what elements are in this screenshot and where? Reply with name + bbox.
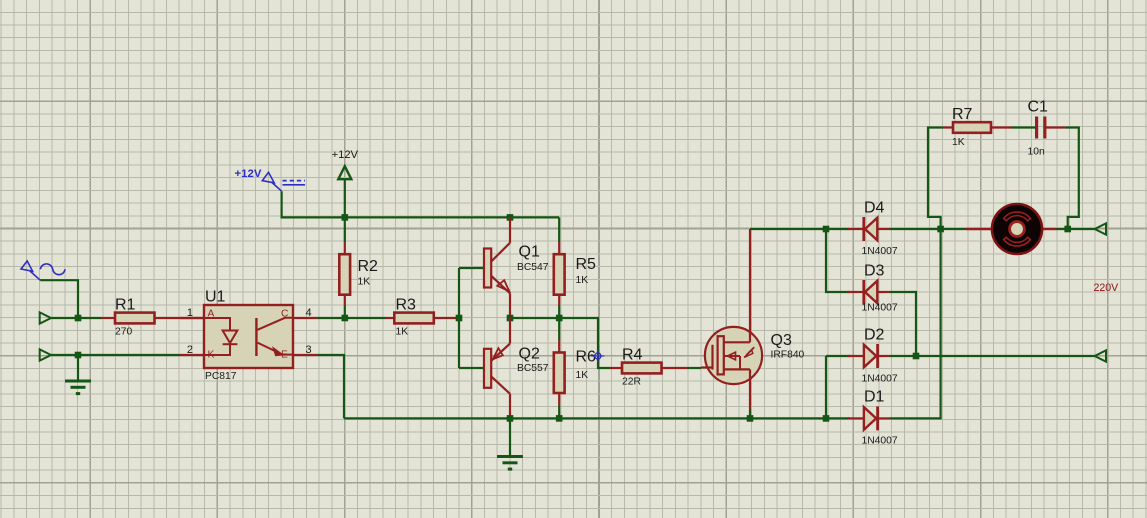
ground GND2 xyxy=(509,418,511,456)
wire node to R4 xyxy=(559,318,610,368)
resistor R3 xyxy=(386,317,394,319)
capacitor C1 xyxy=(1035,117,1038,139)
junction R5 R6 xyxy=(556,315,563,322)
svg-text:BC547: BC547 xyxy=(517,262,549,273)
svg-text:D1: D1 xyxy=(864,389,885,406)
svg-text:K: K xyxy=(208,350,215,361)
wire to Q1 base xyxy=(459,267,484,269)
wire R6 top xyxy=(558,318,560,340)
transistor Q3 MOSFET xyxy=(705,327,762,384)
wire D2 left xyxy=(826,355,851,357)
svg-text:1K: 1K xyxy=(576,275,589,286)
U1 pin stub 1 xyxy=(180,317,204,319)
svg-text:A: A xyxy=(208,309,215,320)
junction motor rail left xyxy=(823,226,830,233)
junction node R2/R3 xyxy=(342,315,349,322)
resistor R7 xyxy=(943,126,953,128)
wire D3 to D2 rail xyxy=(890,292,916,356)
resistor R6 xyxy=(558,340,560,353)
opto-isolator U1 body xyxy=(204,305,293,368)
svg-text:1N4007: 1N4007 xyxy=(862,303,898,314)
transistor Q1 xyxy=(484,249,491,288)
svg-text:220V: 220V xyxy=(1094,282,1120,294)
wire snubber left xyxy=(928,128,943,230)
svg-text:3: 3 xyxy=(306,344,312,356)
wire probe to node xyxy=(40,280,78,318)
resistor R2 xyxy=(344,242,346,254)
resistor R4 xyxy=(610,367,622,369)
junction bus Q1 collector xyxy=(507,214,514,221)
wire D4 right xyxy=(890,228,941,230)
origin marker (blue) xyxy=(595,353,601,359)
svg-text:1K: 1K xyxy=(396,327,409,338)
wire probe down to bus xyxy=(282,191,560,217)
terminal input 1 xyxy=(40,312,51,323)
wire snubber right xyxy=(1066,128,1079,230)
wire bridge left lower xyxy=(825,356,827,418)
wire bottom rail xyxy=(344,417,850,419)
U1 internal LED xyxy=(204,318,230,331)
U1 pin stub 2 xyxy=(180,354,204,356)
svg-text:U1: U1 xyxy=(205,289,226,306)
svg-text:D3: D3 xyxy=(864,263,885,280)
wire output rail xyxy=(890,355,1095,357)
wire U1 pin4 to R3 xyxy=(318,317,386,319)
wire terminal1 xyxy=(51,317,102,319)
voltage probe +12V (blue) xyxy=(262,172,274,183)
wire motor right xyxy=(1057,228,1095,230)
svg-text:R2: R2 xyxy=(358,258,379,275)
wire R2 bottom xyxy=(344,306,346,318)
svg-text:22R: 22R xyxy=(622,377,641,388)
svg-text:10n: 10n xyxy=(1028,147,1045,158)
svg-text:1K: 1K xyxy=(952,137,965,148)
junction rail Q3 xyxy=(747,415,754,422)
svg-text:Q3: Q3 xyxy=(771,332,792,349)
svg-text:R5: R5 xyxy=(576,256,597,273)
resistor R1 xyxy=(102,317,116,319)
wire to Q2 base xyxy=(459,367,484,369)
junction rail D-left xyxy=(823,415,830,422)
junction D3 D2 xyxy=(913,353,920,360)
svg-text:R3: R3 xyxy=(396,297,417,314)
svg-text:R1: R1 xyxy=(115,297,136,314)
junction node IN1 xyxy=(75,315,82,322)
U1 pin stub 3 xyxy=(293,354,318,356)
U1 phototransistor xyxy=(255,318,257,356)
wire R6 bottom xyxy=(558,406,560,418)
svg-text:Q2: Q2 xyxy=(519,346,540,363)
svg-text:R6: R6 xyxy=(576,349,597,366)
wire R2 top xyxy=(344,217,346,242)
svg-text:+12V: +12V xyxy=(235,168,262,180)
svg-text:270: 270 xyxy=(115,327,132,338)
wire terminal2 to U1 K xyxy=(51,354,180,356)
svg-text:1K: 1K xyxy=(576,370,589,381)
terminal output 2 xyxy=(1095,350,1106,361)
wire R5 top xyxy=(558,217,560,242)
motor pins xyxy=(966,228,992,230)
junction rail Q2 xyxy=(507,415,514,422)
svg-text:1N4007: 1N4007 xyxy=(862,436,898,447)
svg-text:1N4007: 1N4007 xyxy=(862,246,898,257)
motor M1 xyxy=(992,204,1042,254)
generator probe (blue) xyxy=(21,261,33,271)
svg-text:4: 4 xyxy=(306,307,312,319)
wire R4 to gate xyxy=(688,367,701,369)
svg-text:R4: R4 xyxy=(622,347,643,364)
wire source to rail xyxy=(749,410,751,418)
Q3 drain wire xyxy=(749,229,751,342)
junction rail R6 xyxy=(556,415,563,422)
wire R7 to C1 xyxy=(1011,126,1035,128)
wire emitters to R5R6 xyxy=(510,317,559,319)
diode D3 xyxy=(848,291,863,293)
svg-text:IRF840: IRF840 xyxy=(771,349,805,360)
svg-text:D4: D4 xyxy=(864,200,885,217)
terminal input 2 xyxy=(40,349,51,360)
wire bridge right vertical xyxy=(890,229,941,418)
junction node IN2 xyxy=(75,352,82,359)
wire motor left xyxy=(941,228,966,230)
wire base column xyxy=(458,268,460,368)
svg-text:2: 2 xyxy=(187,344,193,356)
diode D1 xyxy=(848,417,864,419)
svg-text:C: C xyxy=(281,309,288,320)
ground GND1 xyxy=(77,355,79,381)
svg-text:1: 1 xyxy=(187,307,193,319)
junction snubber xyxy=(937,226,944,233)
wire R5 bottom xyxy=(558,306,560,318)
terminal output 1 xyxy=(1095,223,1106,234)
svg-text:BC557: BC557 xyxy=(517,363,549,374)
junction emitters xyxy=(507,315,514,322)
resistor R5 xyxy=(558,242,560,254)
svg-text:C1: C1 xyxy=(1028,99,1049,116)
svg-text:1K: 1K xyxy=(358,277,371,288)
junction bus R2 xyxy=(342,214,349,221)
junction motor right xyxy=(1064,226,1071,233)
svg-text:Q1: Q1 xyxy=(519,244,540,261)
Q3 source wire xyxy=(749,369,751,410)
svg-text:PC817: PC817 xyxy=(205,371,237,382)
diode D4 xyxy=(848,228,863,230)
svg-text:1N4007: 1N4007 xyxy=(862,374,898,385)
power +12V symbol xyxy=(338,166,351,179)
svg-text:+12V: +12V xyxy=(332,149,359,161)
U1 pin stub 4 xyxy=(293,317,318,319)
transistor Q2 xyxy=(484,349,491,388)
wire drain rail xyxy=(750,228,850,230)
svg-text:E: E xyxy=(281,350,288,361)
junction node base xyxy=(456,315,463,322)
diode D2 xyxy=(848,355,864,357)
wire U1 pin3 down xyxy=(318,355,344,418)
wire bridge left upper xyxy=(826,229,850,292)
svg-text:D2: D2 xyxy=(864,327,885,344)
svg-text:R7: R7 xyxy=(952,106,973,123)
